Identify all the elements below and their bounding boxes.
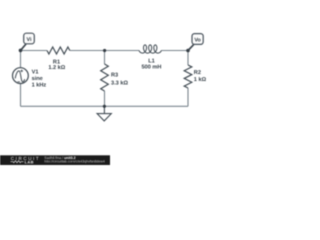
wire top right segment	[161, 50, 188, 52]
wire left vertical upper	[20, 51, 22, 68]
junction node ground	[103, 105, 106, 108]
svg-text:3.3 kΩ: 3.3 kΩ	[111, 80, 128, 87]
source V1	[13, 68, 29, 84]
junction node top-middle	[103, 49, 106, 52]
svg-text:1 kHz: 1 kHz	[32, 82, 47, 89]
svg-text:500 mH: 500 mH	[142, 64, 162, 70]
probe Vo box	[192, 34, 203, 45]
wire top left segment	[21, 50, 48, 52]
wire right vertical lower	[187, 88, 189, 106]
svg-text:R3: R3	[111, 73, 118, 79]
probe Vi box	[24, 33, 35, 44]
inductor L1	[139, 45, 161, 53]
watermark bar	[0, 155, 110, 165]
wire right vertical upper	[187, 51, 189, 66]
svg-text:1.2 kΩ: 1.2 kΩ	[48, 64, 65, 71]
probe Vi pointer	[21, 44, 27, 50]
svg-text:V1: V1	[32, 69, 39, 75]
probe Vo pointer	[188, 45, 194, 51]
junction node top-right	[186, 49, 190, 53]
svg-text:LAB: LAB	[25, 159, 34, 164]
ground	[97, 106, 111, 121]
svg-text:sine: sine	[32, 75, 43, 82]
svg-text:htto://circuitlab.corn/c/e43qh: htto://circuitlab.corn/c/e43qhvfsn8dew4	[44, 160, 105, 164]
svg-text:1 kΩ: 1 kΩ	[194, 76, 207, 83]
junction node top-left	[19, 49, 23, 53]
wire middle vertical lower	[104, 91, 106, 106]
wire middle vertical upper	[104, 51, 106, 65]
wire top middle segment	[70, 50, 139, 52]
resistor R3	[101, 64, 109, 91]
svg-text:Vi: Vi	[27, 37, 32, 43]
watermark logo resistor glyph	[11, 161, 24, 163]
wire bottom	[21, 105, 189, 107]
resistor R1	[47, 47, 70, 54]
wire left vertical lower	[20, 84, 22, 107]
resistor R2	[184, 65, 192, 88]
svg-text:Vo: Vo	[194, 38, 201, 44]
svg-text:R2: R2	[194, 70, 201, 76]
